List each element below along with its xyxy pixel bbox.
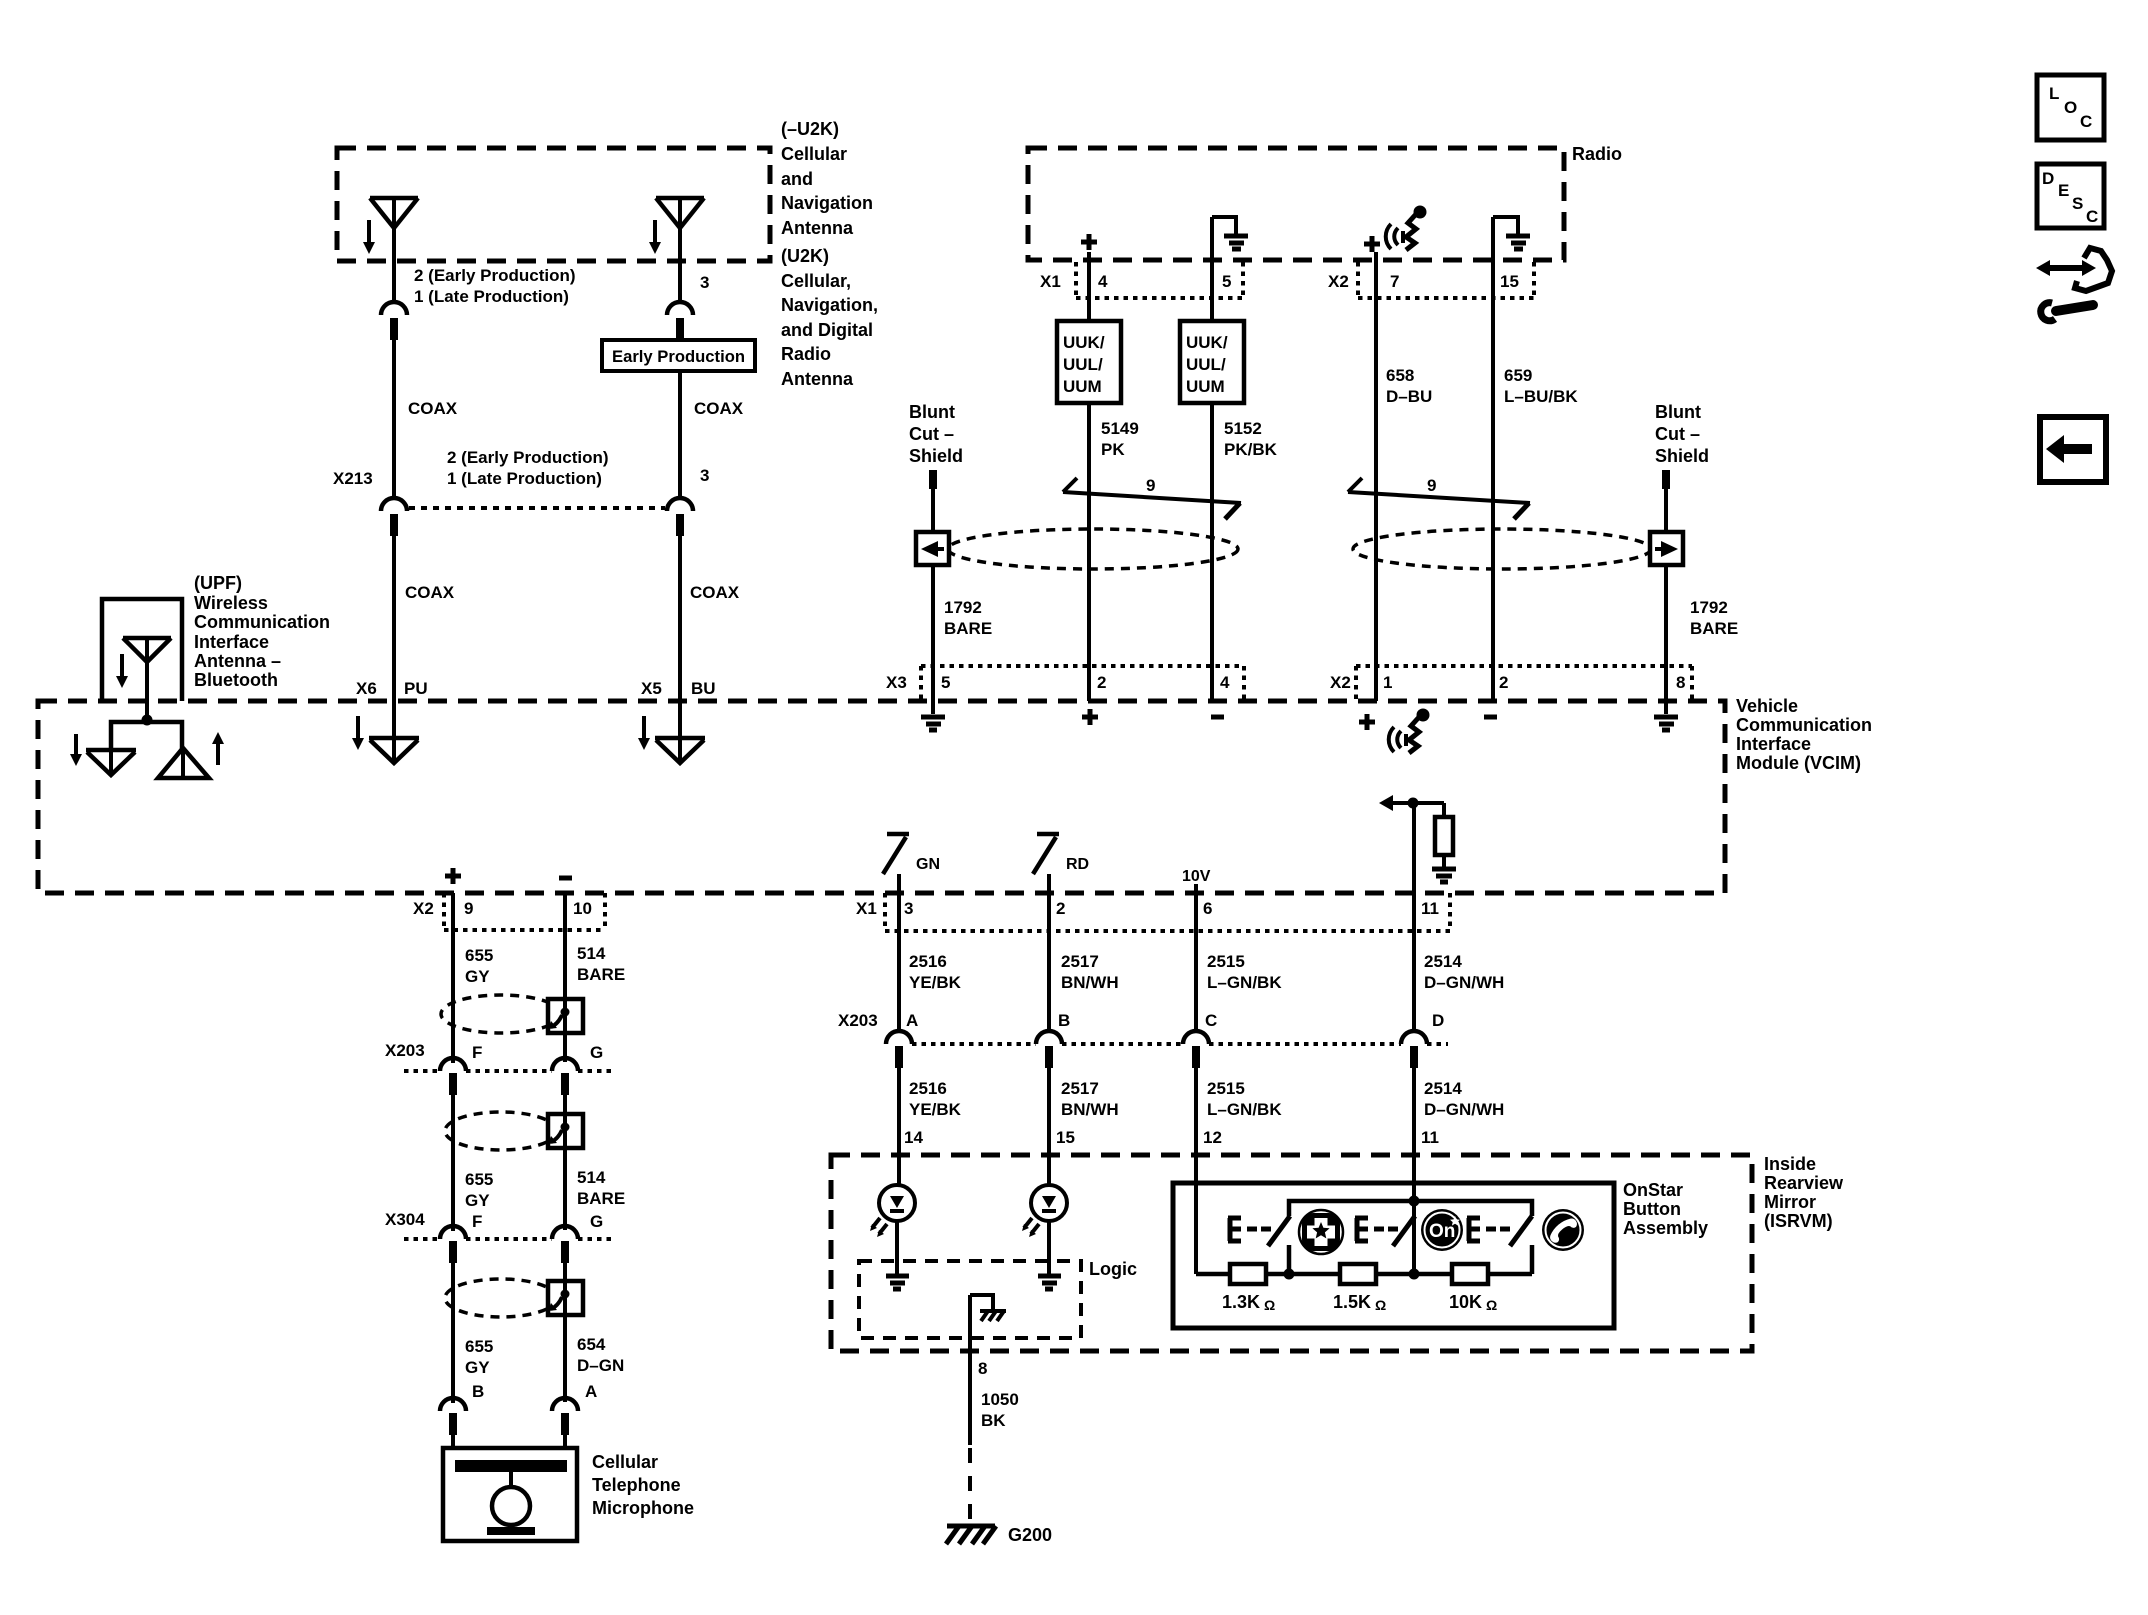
RX terminal (down arrowhead) xyxy=(86,750,136,775)
wire coax right upper xyxy=(678,371,682,498)
svg-text:Cellular: Cellular xyxy=(592,1452,658,1472)
svg-text:and: and xyxy=(781,169,813,189)
svg-text:(U2K): (U2K) xyxy=(781,246,829,266)
connector X203 mic dotted link xyxy=(404,1069,614,1073)
svg-text:15: 15 xyxy=(1056,1128,1075,1147)
wire 10V supply xyxy=(1194,884,1198,893)
wire radio pin 7 to VCIM (658 D-BU) xyxy=(1374,252,1378,701)
ground G200 xyxy=(946,1525,1052,1545)
twisted pair symbol right (circuit 9) xyxy=(1348,476,1530,519)
wire 655 GY segment 3 xyxy=(451,1263,455,1403)
svg-text:S: S xyxy=(2072,194,2083,213)
wire 655 GY segment 2 xyxy=(451,1095,455,1231)
twisted pair symbol left (circuit 9) xyxy=(1063,476,1241,519)
svg-text:YE/BK: YE/BK xyxy=(909,1100,962,1119)
wire radio pin 4 to VCIM (5149 PK) xyxy=(1087,252,1091,701)
svg-text:X203: X203 xyxy=(838,1011,878,1030)
svg-text:UUK/: UUK/ xyxy=(1063,333,1105,352)
label Blunt Cut Shield right xyxy=(1655,402,1709,466)
svg-text:5: 5 xyxy=(1222,272,1231,291)
wire VCIM pin 11 (2514) upper xyxy=(1412,803,1416,1031)
svg-text:C: C xyxy=(1205,1011,1217,1030)
svg-text:BN/WH: BN/WH xyxy=(1061,1100,1119,1119)
svg-text:Interface: Interface xyxy=(1736,734,1811,754)
svg-text:3: 3 xyxy=(700,466,709,485)
svg-text:2: 2 xyxy=(1499,673,1508,692)
wire coax right lower xyxy=(678,536,682,762)
arrow output at VCIM internal node xyxy=(1379,795,1444,811)
svg-text:9: 9 xyxy=(464,899,473,918)
svg-text:Blunt: Blunt xyxy=(909,402,955,422)
arrow down at RX xyxy=(70,734,82,766)
cellular telephone microphone xyxy=(443,1448,577,1541)
wire 654 D-GN segment 3 xyxy=(563,1263,567,1402)
terminal X304-F xyxy=(440,1226,466,1263)
label 514 BARE seg2 xyxy=(577,1168,625,1208)
svg-text:UUM: UUM xyxy=(1186,377,1225,396)
svg-text:Module (VCIM): Module (VCIM) xyxy=(1736,753,1861,773)
shield tap symbol box 2 xyxy=(548,1123,570,1145)
Early Production box xyxy=(602,340,755,371)
svg-text:1 (Late Production): 1 (Late Production) xyxy=(447,469,602,488)
svg-text:Microphone: Microphone xyxy=(592,1498,694,1518)
arrow down inside bracket xyxy=(116,654,128,688)
label 1792 BARE left xyxy=(944,598,992,638)
blunt cut pin right xyxy=(1662,470,1670,489)
ISRVM dashed box xyxy=(831,1155,1752,1351)
label wire 5152 PK/BK xyxy=(1224,419,1278,459)
connector X304 dotted link xyxy=(404,1237,614,1241)
ground symbol shield right (X2 pin 8) xyxy=(1654,717,1678,730)
label X5 BU xyxy=(641,679,716,698)
plus symbol X3 pin 2 xyxy=(1082,709,1098,725)
svg-text:(–U2K): (–U2K) xyxy=(781,119,839,139)
svg-text:Cut –: Cut – xyxy=(1655,424,1700,444)
svg-text:Cellular,: Cellular, xyxy=(781,271,851,291)
Radio dashed box xyxy=(1028,148,1564,260)
label Cellular Telephone Microphone xyxy=(592,1452,694,1518)
plus symbol X2 pin 1 xyxy=(1359,714,1375,730)
svg-text:15: 15 xyxy=(1500,272,1519,291)
svg-text:2514: 2514 xyxy=(1424,1079,1462,1098)
switch SW1 (star button) xyxy=(1228,1216,1290,1274)
svg-text:Antenna: Antenna xyxy=(781,218,854,238)
label Blunt Cut Shield left xyxy=(909,402,963,466)
svg-text:Shield: Shield xyxy=(909,446,963,466)
svg-text:1.5K: 1.5K xyxy=(1333,1292,1371,1312)
arrow down at X6 terminal xyxy=(352,716,364,750)
svg-text:655: 655 xyxy=(465,1337,493,1356)
svg-text:10: 10 xyxy=(573,899,592,918)
svg-text:COAX: COAX xyxy=(408,399,458,418)
svg-text:10V: 10V xyxy=(1182,868,1211,885)
ground symbol internal resistor xyxy=(1432,869,1456,882)
svg-text:5149: 5149 xyxy=(1101,419,1139,438)
minus symbol X2 pin 2 xyxy=(1484,715,1497,720)
connector X203 row A-D xyxy=(838,1011,1448,1044)
svg-text:2516: 2516 xyxy=(909,952,947,971)
svg-text:3: 3 xyxy=(700,273,709,292)
svg-text:9: 9 xyxy=(1427,476,1436,495)
wire coax left lower xyxy=(392,536,396,762)
svg-text:COAX: COAX xyxy=(694,399,744,418)
svg-text:1.3K: 1.3K xyxy=(1222,1292,1260,1312)
terminal X203-G xyxy=(552,1058,578,1095)
svg-text:514: 514 xyxy=(577,1168,606,1187)
svg-text:X6: X6 xyxy=(356,679,377,698)
ground symbol radio pin 15 xyxy=(1493,217,1530,249)
connector X213 right terminal xyxy=(667,498,693,536)
chassis ground tap inside logic box xyxy=(970,1295,1006,1321)
label pins 2/1 at X213 xyxy=(447,448,609,488)
svg-text:4: 4 xyxy=(1220,673,1230,692)
svg-text:1 (Late Production): 1 (Late Production) xyxy=(414,287,569,306)
svg-text:X5: X5 xyxy=(641,679,662,698)
shield ellipse left xyxy=(948,529,1238,569)
svg-text:X3: X3 xyxy=(886,673,907,692)
svg-text:8: 8 xyxy=(1676,673,1685,692)
svg-text:Antenna –: Antenna – xyxy=(194,651,281,671)
label 514 BARE seg1 xyxy=(577,944,625,984)
wire 655 GY segment 1 xyxy=(451,893,455,1063)
svg-text:F: F xyxy=(472,1212,482,1231)
star button icon xyxy=(1299,1210,1343,1254)
onstar lower bus xyxy=(1196,1272,1532,1277)
terminal mic-B xyxy=(440,1398,466,1435)
resistor 10K xyxy=(1449,1264,1497,1313)
svg-text:OnStar: OnStar xyxy=(1623,1180,1683,1200)
label VCIM xyxy=(1736,696,1872,773)
svg-text:Wireless: Wireless xyxy=(194,593,268,613)
svg-text:E: E xyxy=(2058,181,2069,200)
svg-text:X1: X1 xyxy=(856,899,877,918)
svg-text:1792: 1792 xyxy=(1690,598,1728,617)
node internal junction xyxy=(1408,798,1419,809)
svg-text:Early Production: Early Production xyxy=(612,347,745,366)
icon DESC box xyxy=(2037,164,2104,228)
svg-text:Interface: Interface xyxy=(194,632,269,652)
svg-text:Bluetooth: Bluetooth xyxy=(194,670,278,690)
svg-text:2: 2 xyxy=(1097,673,1106,692)
X6 antenna feed terminal xyxy=(369,738,419,763)
svg-text:UUM: UUM xyxy=(1063,377,1102,396)
speaker icon X2 pin 1 xyxy=(1389,709,1430,754)
svg-text:X213: X213 xyxy=(333,469,373,488)
svg-text:PK: PK xyxy=(1101,440,1125,459)
wire radio pin 5 to VCIM (5152 PK/BK) xyxy=(1210,217,1214,701)
svg-text:BARE: BARE xyxy=(577,965,625,984)
label 2515 L-GN/BK lower xyxy=(1207,1079,1282,1119)
label X6 PU xyxy=(356,679,428,698)
shield termination box left xyxy=(916,532,949,565)
label 655 GY seg2 xyxy=(465,1170,493,1210)
phone button icon xyxy=(1542,1209,1584,1251)
wire 2515 L-GN/BK upper xyxy=(1194,893,1198,1031)
wire 514 BARE segment 2 xyxy=(563,1095,567,1230)
svg-text:514: 514 xyxy=(577,944,606,963)
svg-text:658: 658 xyxy=(1386,366,1414,385)
terminal X203-B xyxy=(1036,1031,1062,1068)
switch-to-ground icon GN xyxy=(883,834,940,893)
terminal X203-C xyxy=(1183,1031,1209,1068)
connector X2 row (VCIM top) xyxy=(1330,666,1692,699)
svg-text:L: L xyxy=(2049,84,2059,103)
connector X2 radio row xyxy=(1328,262,1534,298)
svg-text:659: 659 xyxy=(1504,366,1532,385)
svg-text:X2: X2 xyxy=(1328,272,1349,291)
svg-text:Navigation: Navigation xyxy=(781,193,873,213)
label 1792 BARE right xyxy=(1690,598,1738,638)
svg-text:Assembly: Assembly xyxy=(1623,1218,1708,1238)
svg-text:9: 9 xyxy=(1146,476,1155,495)
svg-text:GY: GY xyxy=(465,1358,490,1377)
svg-text:X304: X304 xyxy=(385,1210,425,1229)
terminal mic-A xyxy=(552,1398,578,1435)
shield termination box mic 2 xyxy=(548,1114,583,1148)
svg-text:B: B xyxy=(1058,1011,1070,1030)
switch SW2 (On button) xyxy=(1355,1216,1415,1246)
connector X2 row (VCIM bottom, mic) xyxy=(413,893,605,930)
svg-text:B: B xyxy=(472,1382,484,1401)
arrow up at TX xyxy=(212,732,224,765)
svg-text:BARE: BARE xyxy=(1690,619,1738,638)
arrow down at X5 terminal xyxy=(638,716,650,750)
svg-text:D–BU: D–BU xyxy=(1386,387,1432,406)
node bus junction left xyxy=(1284,1269,1295,1280)
svg-text:UUL/: UUL/ xyxy=(1186,355,1226,374)
minus symbol X2 pin 10 xyxy=(559,876,572,881)
svg-text:and Digital: and Digital xyxy=(781,320,873,340)
label 654 D-GN seg3 xyxy=(577,1335,624,1375)
svg-text:Communication: Communication xyxy=(1736,715,1872,735)
connector terminal pin 2/1 left antenna xyxy=(381,302,407,340)
svg-text:Button: Button xyxy=(1623,1199,1681,1219)
svg-text:Vehicle: Vehicle xyxy=(1736,696,1798,716)
svg-text:Telephone: Telephone xyxy=(592,1475,681,1495)
shield ellipse mic 3 xyxy=(445,1279,557,1317)
shield ellipse right xyxy=(1353,529,1651,569)
svg-text:(ISRVM): (ISRVM) xyxy=(1764,1211,1833,1231)
wire 2514 D-GN/WH lower xyxy=(1412,1068,1416,1274)
svg-text:GN: GN xyxy=(916,856,940,873)
svg-text:Communication: Communication xyxy=(194,612,330,632)
ground symbol LED D2 xyxy=(1038,1221,1061,1289)
wire 1050 BK dashed run xyxy=(968,1448,972,1524)
shield termination box mic 1 xyxy=(548,999,583,1033)
svg-text:Blunt: Blunt xyxy=(1655,402,1701,422)
OnStar button assembly box xyxy=(1173,1183,1614,1328)
bluetooth antenna symbol xyxy=(123,638,171,722)
svg-text:PK/BK: PK/BK xyxy=(1224,440,1278,459)
svg-text:A: A xyxy=(585,1382,597,1401)
svg-text:O: O xyxy=(2064,98,2077,117)
label mic pins B A xyxy=(472,1382,597,1401)
svg-text:2515: 2515 xyxy=(1207,952,1245,971)
svg-text:6: 6 xyxy=(1203,899,1212,918)
svg-text:2: 2 xyxy=(1056,899,1065,918)
svg-text:BARE: BARE xyxy=(944,619,992,638)
connector terminal pin 3 right antenna xyxy=(667,302,693,340)
LED D1 (GN indicator) xyxy=(870,1185,915,1237)
arrow down beside antenna A1 xyxy=(363,220,375,254)
label ISRVM xyxy=(1764,1154,1844,1231)
svg-text:BK: BK xyxy=(981,1411,1006,1430)
label 655 GY seg3 xyxy=(465,1337,493,1377)
label 2514 D-GN/WH upper xyxy=(1424,952,1504,992)
ground symbol radio pin 5 xyxy=(1212,217,1248,249)
svg-text:F: F xyxy=(472,1043,482,1062)
svg-text:5: 5 xyxy=(941,673,950,692)
svg-text:1: 1 xyxy=(1383,673,1392,692)
shield ellipse mic 1 xyxy=(441,995,561,1033)
svg-text:UUK/: UUK/ xyxy=(1186,333,1228,352)
resistor 1.3K xyxy=(1222,1264,1275,1313)
wire shield drain 1792 right xyxy=(1664,489,1668,714)
svg-text:Mirror: Mirror xyxy=(1764,1192,1816,1212)
svg-text:2 (Early Production): 2 (Early Production) xyxy=(414,266,576,285)
svg-text:D–GN/WH: D–GN/WH xyxy=(1424,1100,1504,1119)
plus symbol radio pin 4 xyxy=(1081,234,1097,250)
shield tap symbol box 3 xyxy=(548,1290,570,1312)
svg-text:Logic: Logic xyxy=(1089,1259,1137,1279)
arrow down beside antenna A2 xyxy=(649,220,661,254)
svg-text:Ω: Ω xyxy=(1375,1297,1386,1313)
shield ellipse mic 2 xyxy=(445,1112,557,1150)
svg-text:Radio: Radio xyxy=(1572,144,1622,164)
On button icon xyxy=(1421,1209,1463,1251)
svg-text:Ω: Ω xyxy=(1264,1297,1275,1313)
svg-text:1792: 1792 xyxy=(944,598,982,617)
svg-text:L–GN/BK: L–GN/BK xyxy=(1207,973,1282,992)
icon LOC box xyxy=(2037,75,2104,140)
connector X3 row (VCIM top) xyxy=(886,666,1244,699)
terminal X203-D xyxy=(1401,1031,1427,1068)
svg-text:2 (Early Production): 2 (Early Production) xyxy=(447,448,609,467)
switch SW3 (phone button) xyxy=(1467,1216,1532,1274)
svg-text:G: G xyxy=(590,1212,603,1231)
svg-text:X1: X1 xyxy=(1040,272,1061,291)
svg-text:X203: X203 xyxy=(385,1041,425,1060)
connector X1 radio row xyxy=(1040,262,1243,298)
svg-text:D–GN: D–GN xyxy=(577,1356,624,1375)
connector X213 left terminal xyxy=(381,498,407,536)
svg-text:Navigation,: Navigation, xyxy=(781,295,878,315)
wire coax left upper xyxy=(392,340,396,498)
svg-text:8: 8 xyxy=(978,1359,987,1378)
svg-text:2514: 2514 xyxy=(1424,952,1462,971)
svg-text:654: 654 xyxy=(577,1335,606,1354)
svg-text:Inside: Inside xyxy=(1764,1154,1816,1174)
RPO code box UUK/UUL/UUM left xyxy=(1057,321,1121,403)
svg-text:X2: X2 xyxy=(413,899,434,918)
svg-text:11: 11 xyxy=(1421,899,1439,918)
svg-text:2517: 2517 xyxy=(1061,952,1099,971)
connector X203 mic row labels xyxy=(385,1041,603,1062)
shield termination box mic 3 xyxy=(548,1281,583,1315)
svg-text:Rearview: Rearview xyxy=(1764,1173,1844,1193)
connector X304 row labels xyxy=(385,1210,603,1231)
svg-text:4: 4 xyxy=(1098,272,1108,291)
terminal X203-A xyxy=(886,1031,912,1068)
connector X1 row (VCIM bottom) xyxy=(856,893,1450,931)
bluetooth antenna bracket xyxy=(102,599,182,701)
wire 2516 YE/BK lower xyxy=(897,1068,901,1185)
svg-text:YE/BK: YE/BK xyxy=(909,973,962,992)
wire 2515 L-GN/BK lower xyxy=(1194,1068,1198,1274)
svg-text:On: On xyxy=(1429,1221,1455,1242)
wire 514 BARE segment 1 xyxy=(563,893,567,1062)
svg-text:L–BU/BK: L–BU/BK xyxy=(1504,387,1578,406)
wire 1050 BK solid xyxy=(968,1295,972,1445)
RPO code box UUK/UUL/UUM right xyxy=(1180,321,1244,403)
svg-text:COAX: COAX xyxy=(405,583,455,602)
svg-text:BARE: BARE xyxy=(577,1189,625,1208)
wire 2517 BN/WH upper xyxy=(1047,893,1051,1031)
label (U2K) antenna block xyxy=(781,246,878,389)
antenna A1 (cellular/navigation) xyxy=(370,198,418,303)
svg-text:BU: BU xyxy=(691,679,716,698)
label 2516 YE/BK upper xyxy=(909,952,962,992)
svg-text:12: 12 xyxy=(1203,1128,1222,1147)
Logic dashed box xyxy=(859,1261,1081,1338)
terminal X203-F xyxy=(440,1058,466,1095)
label wire 659 L-BU/BK xyxy=(1504,366,1578,406)
icon back arrow box xyxy=(2040,417,2106,482)
label pins 2/1 left xyxy=(414,266,576,306)
label wire 658 D-BU xyxy=(1386,366,1432,406)
svg-text:Cut –: Cut – xyxy=(909,424,954,444)
svg-text:D–GN/WH: D–GN/WH xyxy=(1424,973,1504,992)
wire 2517 BN/WH lower xyxy=(1047,1068,1051,1185)
minus symbol X3 pin 4 xyxy=(1211,715,1224,720)
onstar upper bus xyxy=(1289,1201,1532,1216)
wire radio pin 15 to VCIM (659 L-BU/BK) xyxy=(1491,217,1495,701)
svg-text:Cellular: Cellular xyxy=(781,144,847,164)
svg-text:C: C xyxy=(2080,112,2092,131)
label wire 5149 PK xyxy=(1101,419,1139,459)
plus symbol radio pin 7 xyxy=(1364,236,1380,252)
connector X213 dotted link xyxy=(409,506,665,510)
svg-text:655: 655 xyxy=(465,1170,493,1189)
switch-to-ground icon RD xyxy=(1033,834,1089,893)
TX terminal (up triangle) xyxy=(158,748,209,778)
resistor 1.5K xyxy=(1333,1264,1386,1313)
LED D2 (RD indicator) xyxy=(1022,1185,1067,1237)
bluetooth RX/TX bracket inside VCIM xyxy=(111,722,182,752)
label 2517 BN/WH upper xyxy=(1061,952,1119,992)
svg-text:(UPF): (UPF) xyxy=(194,573,242,593)
svg-text:GY: GY xyxy=(465,1191,490,1210)
label 2516 YE/BK lower xyxy=(909,1079,962,1119)
label (UPF) bluetooth antenna xyxy=(194,573,330,690)
wire mic B lead xyxy=(451,1435,455,1450)
shield termination box right xyxy=(1650,532,1683,565)
svg-text:L–GN/BK: L–GN/BK xyxy=(1207,1100,1282,1119)
cellular and navigation antenna dashed box xyxy=(337,148,770,261)
node bus junction mid xyxy=(1409,1269,1420,1280)
blunt cut pin left xyxy=(929,470,937,489)
label OnStar Button Assembly xyxy=(1623,1180,1708,1238)
ground symbol LED D1 xyxy=(886,1221,909,1289)
plus symbol X2 pin 9 xyxy=(445,868,461,884)
svg-text:2517: 2517 xyxy=(1061,1079,1099,1098)
svg-text:1050: 1050 xyxy=(981,1390,1019,1409)
svg-text:G: G xyxy=(590,1043,603,1062)
svg-text:A: A xyxy=(906,1011,918,1030)
label 2514 D-GN/WH lower xyxy=(1424,1079,1504,1119)
label 655 GY seg1 xyxy=(465,946,493,986)
svg-text:RD: RD xyxy=(1066,856,1089,873)
